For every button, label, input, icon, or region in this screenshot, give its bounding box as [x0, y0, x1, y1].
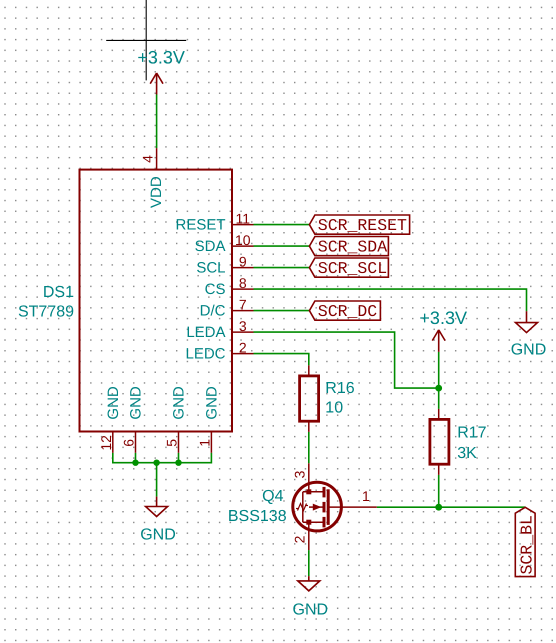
svg-text:7: 7 — [239, 297, 247, 313]
svg-text:GND: GND — [105, 386, 122, 420]
svg-text:GND: GND — [171, 386, 188, 420]
svg-text:SCR_BL: SCR_BL — [518, 515, 537, 574]
svg-text:3K: 3K — [457, 445, 477, 462]
svg-text:SCL: SCL — [196, 260, 225, 277]
svg-text:GND: GND — [511, 342, 547, 359]
svg-text:+3.3V: +3.3V — [419, 308, 467, 328]
svg-text:12: 12 — [98, 435, 114, 451]
svg-text:3: 3 — [291, 470, 307, 478]
svg-text:11: 11 — [236, 211, 251, 227]
svg-text:ST7789: ST7789 — [18, 303, 74, 320]
svg-text:D/C: D/C — [200, 303, 226, 320]
svg-text:GND: GND — [293, 601, 329, 618]
svg-text:R16: R16 — [325, 380, 354, 397]
svg-text:+3.3V: +3.3V — [137, 48, 185, 68]
svg-text:2: 2 — [291, 535, 307, 543]
svg-text:9: 9 — [239, 254, 247, 270]
svg-text:LEDA: LEDA — [186, 324, 225, 341]
svg-text:5: 5 — [164, 439, 180, 447]
svg-text:2: 2 — [239, 340, 247, 356]
svg-text:4: 4 — [140, 155, 156, 163]
svg-text:GND: GND — [204, 386, 221, 420]
svg-text:1: 1 — [362, 488, 370, 504]
svg-text:SCR_SCL: SCR_SCL — [318, 259, 387, 278]
svg-text:10: 10 — [325, 400, 343, 417]
svg-text:6: 6 — [121, 439, 137, 447]
svg-text:Q4: Q4 — [262, 488, 283, 505]
svg-text:BSS138: BSS138 — [228, 508, 287, 525]
svg-text:CS: CS — [205, 281, 226, 298]
svg-text:1: 1 — [197, 439, 213, 447]
svg-text:SDA: SDA — [195, 238, 226, 255]
svg-text:3: 3 — [239, 318, 247, 334]
svg-text:SCR_SDA: SCR_SDA — [318, 238, 387, 257]
svg-text:LEDC: LEDC — [185, 346, 225, 363]
svg-text:10: 10 — [235, 232, 251, 248]
svg-text:SCR_RESET: SCR_RESET — [318, 216, 407, 235]
svg-text:GND: GND — [128, 386, 145, 420]
svg-text:8: 8 — [239, 275, 247, 291]
svg-text:SCR_DC: SCR_DC — [318, 302, 378, 321]
svg-text:DS1: DS1 — [43, 284, 74, 301]
svg-text:VDD: VDD — [148, 176, 165, 208]
svg-text:R17: R17 — [457, 424, 486, 441]
svg-text:GND: GND — [140, 526, 176, 543]
svg-text:RESET: RESET — [175, 217, 225, 234]
